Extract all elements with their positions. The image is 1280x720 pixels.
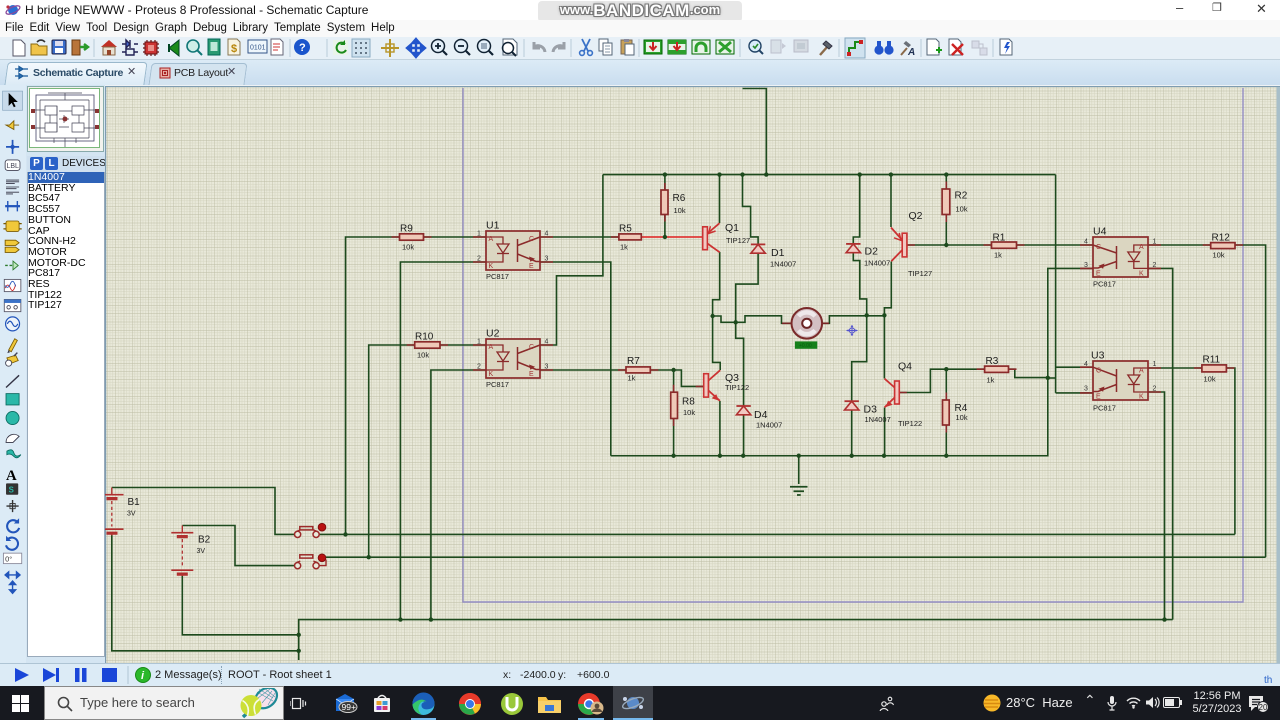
svg-text:E: E xyxy=(529,263,534,270)
chrome profile xyxy=(578,692,604,716)
mirror h xyxy=(5,572,20,578)
wire D2 top xyxy=(853,175,859,244)
diode D3 xyxy=(845,401,891,424)
svg-text:4: 4 xyxy=(1084,239,1088,246)
device list xyxy=(27,172,105,657)
component mode xyxy=(122,40,138,55)
generator xyxy=(6,317,20,331)
proteus active xyxy=(613,686,653,720)
transistor Q3 TIP122 xyxy=(704,370,749,401)
svg-text:C: C xyxy=(1096,244,1101,251)
teal magnifier xyxy=(187,40,202,55)
tab: PCB Layout xyxy=(148,63,247,85)
svg-text:R7: R7 xyxy=(627,356,640,367)
svg-text:1N4007: 1N4007 xyxy=(864,259,890,268)
svg-text:C: C xyxy=(529,344,534,351)
wire R1 xyxy=(946,244,1093,246)
svg-text:10k: 10k xyxy=(674,206,686,215)
svg-text:R1: R1 xyxy=(993,233,1006,244)
svg-text:2: 2 xyxy=(1153,262,1157,269)
wire D1 bottom xyxy=(736,253,758,322)
2D arc xyxy=(6,434,19,442)
svg-text:1: 1 xyxy=(477,231,481,238)
svg-text:C: C xyxy=(1096,368,1101,375)
svg-text:D3: D3 xyxy=(864,404,878,416)
schematic overview preview xyxy=(27,86,104,152)
resistor R7 xyxy=(626,356,650,383)
wire bottom ground rail + U4 pin3 riser xyxy=(611,268,1093,455)
search binoculars xyxy=(874,41,893,55)
right tray xyxy=(878,696,896,711)
2D circle xyxy=(6,411,19,424)
wire bridge at R3 node xyxy=(1048,377,1056,379)
wire motor right net xyxy=(823,316,885,324)
svg-text:1: 1 xyxy=(477,339,481,346)
diode D4 xyxy=(736,406,782,430)
resistor R6 xyxy=(661,190,686,215)
tennis doodle xyxy=(230,688,283,720)
cut xyxy=(580,39,593,55)
green marker xyxy=(169,40,179,56)
svg-text:1k: 1k xyxy=(628,374,636,383)
svg-text:99+: 99+ xyxy=(342,702,356,712)
wire R4 stubs xyxy=(945,369,947,456)
angle box xyxy=(3,553,21,563)
svg-text:4: 4 xyxy=(545,231,549,238)
remove sheet xyxy=(949,39,963,55)
wire U4 pin2 down xyxy=(1148,268,1173,619)
wire Q4 emitter down xyxy=(884,408,886,456)
resistor R10 xyxy=(415,332,440,360)
resistor R5 xyxy=(619,224,641,252)
zoom out xyxy=(455,40,471,56)
canvas borders xyxy=(105,86,1280,88)
utorrent xyxy=(500,692,524,716)
svg-text:1k: 1k xyxy=(620,243,628,252)
resistor R3 xyxy=(985,356,1009,385)
2D symbol xyxy=(6,483,18,494)
transistor Q1 TIP127 xyxy=(703,222,750,252)
task view xyxy=(290,696,307,711)
device pins xyxy=(5,264,12,266)
resistor R12 xyxy=(1211,233,1235,260)
ground xyxy=(790,487,808,495)
svg-text:20: 20 xyxy=(1259,703,1268,712)
goto sheet (gray) xyxy=(972,41,987,55)
svg-text:U4: U4 xyxy=(1093,226,1107,238)
svg-text:R2: R2 xyxy=(955,191,968,202)
block copy xyxy=(644,40,662,54)
svg-text:TIP122: TIP122 xyxy=(725,383,749,392)
svg-text:A: A xyxy=(489,236,494,243)
motor xyxy=(782,308,829,349)
pick parts xyxy=(749,40,763,54)
svg-text:U1: U1 xyxy=(486,220,500,232)
edge xyxy=(411,692,436,716)
mirror v xyxy=(10,581,16,593)
svg-text:U3: U3 xyxy=(1091,350,1105,362)
wire U3 pin3 entry xyxy=(1056,392,1093,394)
svg-text:10k: 10k xyxy=(683,408,695,417)
battery B1 xyxy=(102,488,141,536)
wire R9 left vertical xyxy=(346,237,487,534)
2D box xyxy=(6,394,19,405)
wire D4 top and bottom xyxy=(736,322,744,455)
wire rail left drop to U2 pin4 xyxy=(540,175,603,345)
svg-text:B1: B1 xyxy=(128,497,141,508)
2D marker xyxy=(6,500,18,512)
origin marker xyxy=(847,325,858,336)
svg-text:R5: R5 xyxy=(619,224,632,235)
wire R10 left vertical xyxy=(369,345,486,557)
svg-text:R8: R8 xyxy=(682,397,695,408)
redo xyxy=(553,42,564,52)
svg-text:R6: R6 xyxy=(673,193,686,204)
svg-text:TIP127: TIP127 xyxy=(908,269,932,278)
wire R2 stubs xyxy=(945,175,947,245)
svg-text:3: 3 xyxy=(1084,262,1088,269)
svg-text:S: S xyxy=(9,486,14,495)
wire supply right drop xyxy=(1055,175,1057,393)
wire R8 stubs xyxy=(673,370,675,456)
2D line xyxy=(6,375,19,387)
svg-text:E: E xyxy=(1096,394,1101,401)
tape recorder xyxy=(4,299,21,311)
svg-text:C: C xyxy=(529,236,534,243)
$ doc xyxy=(228,39,240,55)
2D path xyxy=(7,450,21,458)
wire R7 to Q3 base xyxy=(650,370,703,386)
svg-text:E: E xyxy=(529,371,534,378)
svg-text:1k: 1k xyxy=(994,251,1002,260)
packaging (gray) xyxy=(794,40,808,52)
report doc xyxy=(271,39,283,55)
paste xyxy=(621,39,634,55)
wire R6 stubs xyxy=(664,175,666,237)
wire Q2 emitter to rail xyxy=(890,175,892,227)
undo xyxy=(534,42,545,52)
rotate cw xyxy=(7,520,19,532)
red chip xyxy=(143,40,159,56)
resistor R1 xyxy=(992,233,1017,260)
svg-text:D2: D2 xyxy=(865,246,879,258)
svg-text:+0.00: +0.00 xyxy=(799,343,812,349)
wire U3 pin1 to R11 and right drop xyxy=(1148,368,1235,534)
wire Q2 base to node xyxy=(907,244,946,246)
svg-text:PC817: PC817 xyxy=(1093,280,1116,289)
resistor R9 xyxy=(400,224,424,252)
red component pin stubs xyxy=(392,182,1244,433)
diode D1 xyxy=(751,244,796,268)
svg-text:K: K xyxy=(1139,271,1144,278)
electrical check xyxy=(1000,39,1012,55)
import xyxy=(72,40,88,55)
zoom area xyxy=(478,40,494,56)
refresh xyxy=(333,40,348,55)
svg-text:0°: 0° xyxy=(5,554,12,563)
svg-text:A: A xyxy=(6,468,17,484)
svg-text:2: 2 xyxy=(477,364,481,371)
wire top supply feed xyxy=(743,89,767,175)
sheet border xyxy=(463,88,1243,602)
grid toggle pressed xyxy=(352,39,370,57)
svg-text:K: K xyxy=(489,263,494,270)
wire U3 pin4 entry xyxy=(1056,366,1093,368)
optocoupler U4 xyxy=(1084,226,1157,289)
make device (gray) xyxy=(771,40,786,53)
wire label LBL xyxy=(5,160,20,170)
home xyxy=(101,40,117,55)
svg-text:A: A xyxy=(1139,244,1144,251)
selection arrow (active) xyxy=(3,91,23,110)
svg-text:3V: 3V xyxy=(127,511,136,518)
bandicam watermark xyxy=(538,1,742,22)
optocoupler U2 xyxy=(477,328,549,390)
svg-text:D4: D4 xyxy=(754,409,768,421)
wire left bridge mid drop to Q3 xyxy=(713,316,721,370)
green chip doc xyxy=(208,39,220,55)
svg-text:2: 2 xyxy=(1153,386,1157,393)
wire U2 pin3 to R7 xyxy=(540,369,626,371)
svg-text:A: A xyxy=(1139,368,1144,375)
wire U4 pin1 to R12 and right drop xyxy=(1148,245,1266,557)
resistor R2 xyxy=(942,189,968,215)
svg-text:10k: 10k xyxy=(417,351,429,360)
wire Q1 emitter to rail xyxy=(719,175,721,223)
property assign xyxy=(901,41,915,58)
chrome xyxy=(458,692,482,716)
window title bar xyxy=(0,0,1280,20)
junction dot mode xyxy=(6,140,19,154)
svg-text:10k: 10k xyxy=(956,413,968,422)
terminals xyxy=(5,240,19,245)
svg-text:1N4007: 1N4007 xyxy=(770,260,796,269)
svg-text:1N4007: 1N4007 xyxy=(865,415,891,424)
tab row xyxy=(0,60,1280,85)
wire U1 pin4 to R5 xyxy=(540,236,619,238)
resistor R11 xyxy=(1202,355,1227,384)
svg-text:K: K xyxy=(489,371,494,378)
start button xyxy=(12,695,29,712)
block delete xyxy=(716,40,734,54)
wire U2 pin2 down xyxy=(431,370,486,620)
new sheet xyxy=(927,39,942,55)
svg-text:3V: 3V xyxy=(197,548,206,555)
wire B1 top to button1 xyxy=(112,488,295,535)
svg-text:PC817: PC817 xyxy=(1093,404,1116,413)
block rotate xyxy=(692,40,710,54)
0101 box xyxy=(248,40,267,53)
resistor R8 xyxy=(671,392,696,418)
optocoupler U1 xyxy=(477,220,549,282)
main toolbar xyxy=(0,37,1280,60)
svg-text:1N4007: 1N4007 xyxy=(756,421,782,430)
svg-text:3: 3 xyxy=(1084,386,1088,393)
wire Q4 collector riser xyxy=(883,315,885,378)
help xyxy=(294,39,310,55)
wire Q3 emitter down xyxy=(719,401,721,456)
wire ground stub xyxy=(798,456,800,484)
svg-text:10k: 10k xyxy=(956,205,968,214)
windows taskbar xyxy=(0,686,1280,720)
svg-text:4: 4 xyxy=(545,339,549,346)
wire long line A buttons to R11 xyxy=(319,533,1235,535)
schematic canvas SVG xyxy=(105,85,1280,663)
svg-text:A: A xyxy=(907,47,915,58)
underlines xyxy=(411,718,436,720)
optocoupler U3 xyxy=(1084,350,1157,413)
svg-text:R11: R11 xyxy=(1203,355,1221,366)
wire motor left net xyxy=(713,316,791,324)
copy xyxy=(599,39,612,55)
svg-text:2: 2 xyxy=(477,256,481,263)
object selector panel xyxy=(26,85,105,663)
active tab: Schematic Capture xyxy=(4,62,147,85)
svg-text:?: ? xyxy=(299,42,306,54)
svg-text:3: 3 xyxy=(545,364,549,371)
button 1 xyxy=(295,523,326,537)
wire top supply rail xyxy=(603,174,1056,176)
svg-text:TIP122: TIP122 xyxy=(898,419,922,428)
wire Q4 base to node xyxy=(899,369,947,392)
battery B2 xyxy=(171,526,210,577)
decompose hammer xyxy=(820,41,832,55)
folder xyxy=(537,694,562,714)
svg-text:Q2: Q2 xyxy=(909,210,923,222)
svg-text:R12: R12 xyxy=(1212,233,1231,244)
svg-text:E: E xyxy=(1096,271,1101,278)
svg-text:R3: R3 xyxy=(986,356,999,367)
DEVICES header xyxy=(27,156,105,172)
svg-text:10k: 10k xyxy=(1204,375,1216,384)
rotate ccw xyxy=(6,538,18,550)
svg-text:B2: B2 xyxy=(198,535,211,546)
block move xyxy=(668,40,686,54)
wire D2 bottom xyxy=(853,254,866,316)
resistor R4 xyxy=(943,400,968,425)
wire long bottom line C xyxy=(299,620,1173,660)
pan xyxy=(407,39,425,57)
subcircuit xyxy=(6,221,19,231)
red selected wire R5 to Q1 base xyxy=(641,236,702,238)
svg-text:10k: 10k xyxy=(1213,251,1225,260)
window buttons xyxy=(1176,0,1183,15)
wire node to R3 and R3 right jog xyxy=(946,369,1048,377)
graph mode xyxy=(4,279,21,291)
svg-text:Q1: Q1 xyxy=(725,222,739,234)
svg-text:LBL: LBL xyxy=(6,163,19,170)
wire U1 pin2 down xyxy=(400,262,486,620)
wire Q1 collector down xyxy=(713,252,720,316)
wire long line B buttons to R12 xyxy=(326,556,1266,558)
wire right mid drop to D3 xyxy=(852,315,867,401)
zoom in xyxy=(432,40,448,56)
svg-text:Q4: Q4 xyxy=(898,361,912,373)
ms store xyxy=(372,694,392,713)
svg-text:3: 3 xyxy=(545,256,549,263)
diode D2 xyxy=(846,244,890,268)
svg-text:K: K xyxy=(1139,394,1144,401)
wire D3 bottom xyxy=(851,410,853,456)
svg-text:U2: U2 xyxy=(486,328,500,340)
mail xyxy=(334,694,358,713)
wire Q2 collector down xyxy=(884,262,891,316)
status bar xyxy=(0,663,1280,686)
svg-text:A: A xyxy=(489,344,494,351)
wire B2 top to button2 xyxy=(182,526,294,566)
wire autorouter pressed xyxy=(845,38,865,58)
svg-text:10k: 10k xyxy=(402,243,414,252)
text script xyxy=(6,180,19,194)
wire B1 bottom xyxy=(112,535,299,651)
transistor Q4 TIP122 xyxy=(885,361,923,429)
wire B2 bottom xyxy=(182,575,298,635)
svg-text:PC817: PC817 xyxy=(486,272,509,281)
transistor Q2 TIP127 xyxy=(891,210,932,278)
svg-text:0101: 0101 xyxy=(250,45,266,52)
svg-text:D1: D1 xyxy=(771,247,785,259)
button 2 xyxy=(295,554,327,569)
component mode xyxy=(6,121,19,130)
svg-text:R9: R9 xyxy=(400,224,413,235)
svg-text:1k: 1k xyxy=(987,376,995,385)
wire U3 pin2 down xyxy=(1148,392,1165,620)
zoom sheet xyxy=(503,39,518,56)
svg-text:$: $ xyxy=(231,43,237,55)
new file xyxy=(13,40,25,56)
svg-text:1: 1 xyxy=(1153,239,1157,246)
svg-text:4: 4 xyxy=(1084,361,1088,368)
svg-text:R10: R10 xyxy=(415,332,434,343)
open folder xyxy=(31,40,47,55)
voltage probe xyxy=(9,339,18,352)
svg-text:1: 1 xyxy=(1153,361,1157,368)
current probe xyxy=(7,355,18,364)
origin xyxy=(381,39,399,57)
svg-text:PC817: PC817 xyxy=(486,380,509,389)
buses xyxy=(5,205,20,208)
wire U1 pin3 to ground rail xyxy=(540,262,611,456)
wire D1 top xyxy=(743,175,759,245)
svg-text:TIP127: TIP127 xyxy=(726,236,750,245)
save floppy xyxy=(52,40,66,54)
search box xyxy=(44,686,284,720)
left icon column xyxy=(0,85,26,663)
canvas background xyxy=(105,86,1280,663)
menu bar xyxy=(0,20,1280,37)
